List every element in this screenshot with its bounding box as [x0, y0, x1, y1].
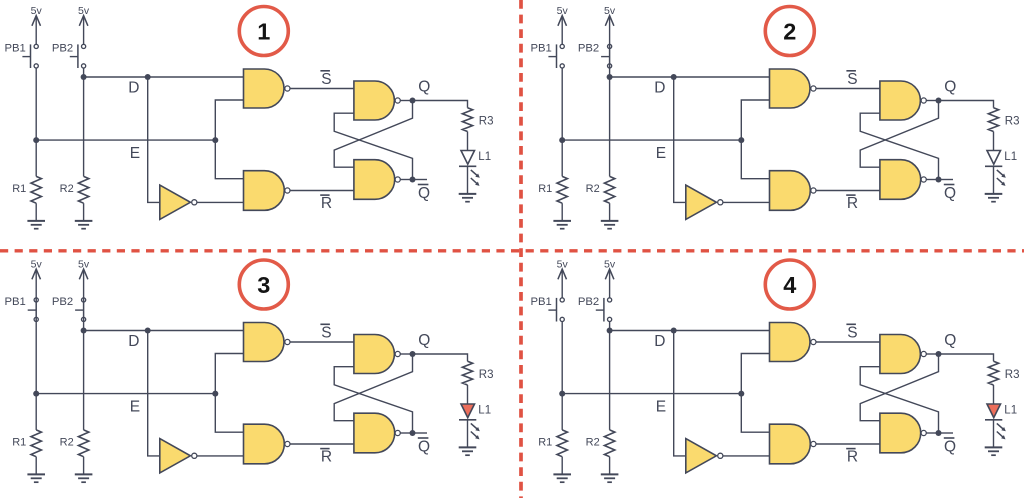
svg-text:R2: R2: [586, 183, 600, 195]
junction node E at PB1: [559, 137, 565, 143]
label L1: [478, 404, 491, 416]
resistor R3: [462, 108, 472, 132]
vertical divider (dashed): [519, 0, 523, 498]
svg-text:D: D: [128, 79, 139, 96]
wire R1 to ground: [35, 457, 37, 475]
svg-text:R: R: [321, 449, 332, 466]
label Q̅: [944, 438, 956, 455]
quadrant 1: D latch demo, PB1 open, PB2 open, LED off: [4, 5, 493, 229]
label D: [654, 79, 665, 96]
label PB2: [578, 43, 599, 55]
inverter U3: [160, 439, 197, 473]
wire R2 to ground: [609, 457, 611, 475]
step 4 badge: [765, 260, 814, 309]
pushbutton PB2: [70, 44, 86, 68]
pushbutton PB2: [601, 44, 612, 68]
svg-text:Q: Q: [944, 332, 956, 349]
resistor R3: [462, 361, 472, 385]
junction node E at PB1: [559, 391, 565, 397]
ground (R1): [553, 474, 571, 482]
ground (L1): [985, 447, 1003, 455]
wire node Q̅ to U4 input (cross-couple): [334, 367, 412, 433]
nand gate U2: [244, 171, 291, 211]
label R̅: [320, 195, 332, 212]
wire node D to U1 input: [610, 330, 770, 332]
wire node Q̅ stub: [413, 432, 428, 434]
label PB2: [578, 296, 599, 308]
led L1: [985, 404, 1006, 439]
svg-text:R1: R1: [12, 183, 26, 195]
power 5v (PB2): [604, 5, 616, 44]
wire PB2 to node D: [609, 68, 611, 77]
wire node D to R2: [609, 331, 611, 430]
wire node E to U1 input: [215, 100, 243, 140]
wire node Q to R3: [939, 354, 994, 361]
svg-text:S: S: [321, 71, 331, 88]
label S̅: [846, 71, 857, 88]
wire node Q to U5 input (cross-couple): [334, 101, 412, 168]
svg-text:R2: R2: [586, 437, 600, 449]
wire PB1 to R1 (node E): [561, 68, 563, 176]
nand gate U5: [880, 160, 926, 200]
wire node Q to R3: [413, 354, 468, 361]
label R3: [1005, 115, 1020, 127]
wire node Q to U5 input (cross-couple): [860, 354, 938, 421]
junction node D at PB2: [81, 74, 87, 80]
wire node E to U1 input: [215, 354, 243, 394]
wire R1 to ground: [561, 203, 563, 221]
nand gate U4: [354, 335, 400, 374]
wire node Q to R3: [413, 101, 468, 108]
svg-text:R3: R3: [1005, 115, 1020, 127]
label S̅: [320, 324, 331, 341]
svg-text:PB2: PB2: [52, 296, 73, 308]
label Q̅: [418, 185, 430, 202]
label R2: [586, 437, 600, 449]
wire net R̅ (U2 out to U5 in): [816, 190, 880, 192]
quadrant 2: D latch demo, PB1 open, PB2 closed, LED off: [530, 5, 1019, 229]
wire L1 to ground: [993, 420, 995, 448]
svg-text:2: 2: [783, 18, 796, 44]
label R1: [538, 183, 552, 195]
label L1: [1004, 404, 1017, 416]
resistor R1: [31, 176, 41, 203]
nand gate U1: [244, 69, 291, 108]
wire PB2 to node D: [609, 322, 611, 331]
wire U4 output to node Q: [400, 100, 412, 102]
nand gate U5: [354, 413, 400, 453]
svg-text:L1: L1: [478, 404, 491, 416]
svg-text:PB2: PB2: [52, 43, 73, 55]
nand gate U4: [880, 81, 926, 120]
label PB1: [4, 43, 25, 55]
ground (R1): [27, 221, 45, 229]
led L1: [459, 404, 480, 439]
wire R2 to ground: [609, 203, 611, 221]
svg-text:3: 3: [257, 272, 270, 298]
svg-text:PB1: PB1: [4, 43, 25, 55]
label L1: [1004, 151, 1017, 163]
svg-text:R1: R1: [538, 437, 552, 449]
wire U5 output to node Q̅: [400, 432, 412, 434]
wire net S̅ (U1 out to U4 in): [290, 341, 354, 343]
svg-text:R1: R1: [12, 437, 26, 449]
svg-text:Q: Q: [944, 185, 956, 202]
junction node D at PB2: [81, 328, 87, 334]
wire PB1 to R1 (node E): [35, 68, 37, 176]
junction node Q: [936, 351, 942, 357]
step 2 badge: [765, 7, 814, 56]
wire node D to inverter U3 input: [674, 77, 685, 202]
svg-text:D: D: [654, 333, 665, 350]
nand gate U2: [770, 424, 817, 464]
svg-text:E: E: [656, 145, 666, 162]
resistor R2: [604, 176, 614, 203]
label Q: [418, 332, 430, 349]
wire L1 to ground: [467, 166, 469, 194]
svg-text:D: D: [654, 79, 665, 96]
junction node D branch: [671, 328, 677, 334]
wire net S̅ (U1 out to U4 in): [816, 341, 880, 343]
nand gate U2: [244, 424, 291, 464]
svg-text:R3: R3: [479, 115, 494, 127]
resistor R3: [988, 361, 998, 385]
wire node D to U1 input: [84, 330, 244, 332]
label R3: [1005, 369, 1020, 381]
wire U3 output to U2 input: [197, 201, 244, 203]
label E: [656, 145, 666, 162]
ground (R2): [601, 221, 619, 229]
svg-text:Q: Q: [944, 438, 956, 455]
wire node E to U1 input: [741, 354, 769, 394]
label PB1: [4, 296, 25, 308]
label Q: [944, 332, 956, 349]
ground (R2): [601, 474, 619, 482]
svg-text:R: R: [847, 195, 858, 212]
wire node E: [36, 139, 215, 141]
label R̅: [320, 449, 332, 466]
wire node E: [562, 393, 741, 395]
svg-text:R2: R2: [60, 437, 74, 449]
svg-text:D: D: [128, 333, 139, 350]
quadrant 4: D latch demo, PB1 open, PB2 open, LED on: [530, 259, 1019, 483]
svg-text:L1: L1: [478, 151, 491, 163]
junction node E branch: [738, 137, 744, 143]
ground (R2): [75, 474, 93, 482]
svg-text:E: E: [130, 145, 140, 162]
junction node D branch: [145, 328, 151, 334]
ground (L1): [459, 194, 477, 202]
wire net S̅ (U1 out to U4 in): [816, 88, 880, 90]
label PB1: [530, 296, 551, 308]
wire net R̅ (U2 out to U5 in): [290, 443, 354, 445]
svg-text:S: S: [847, 325, 857, 342]
wire R2 to ground: [83, 457, 85, 475]
power 5v (PB2): [604, 259, 616, 298]
nand gate U1: [770, 69, 817, 108]
junction node D branch: [671, 74, 677, 80]
resistor R2: [78, 176, 88, 203]
wire U5 output to node Q̅: [400, 179, 412, 181]
svg-text:PB1: PB1: [4, 296, 25, 308]
svg-text:R: R: [321, 195, 332, 212]
label S̅: [846, 324, 857, 341]
wire R1 to ground: [35, 203, 37, 221]
svg-text:Q: Q: [418, 185, 430, 202]
resistor R1: [31, 430, 41, 457]
label D: [128, 333, 139, 350]
pushbutton PB1: [28, 298, 39, 322]
svg-text:PB2: PB2: [578, 296, 599, 308]
ground (L1): [459, 447, 477, 455]
wire node D to R2: [609, 77, 611, 176]
label R3: [479, 369, 494, 381]
junction node E branch: [212, 391, 218, 397]
wire net S̅ (U1 out to U4 in): [290, 88, 354, 90]
wire node Q̅ to U4 input (cross-couple): [860, 113, 938, 179]
wire node D to U1 input: [84, 76, 244, 78]
label R1: [12, 183, 26, 195]
label PB2: [52, 296, 73, 308]
label PB2: [52, 43, 73, 55]
wire PB1 to R1 (node E): [35, 322, 37, 430]
wire R3 to LED L1: [467, 385, 469, 404]
inverter U3: [686, 185, 723, 219]
nand gate U1: [244, 323, 291, 362]
junction node D at PB2: [607, 74, 613, 80]
label R̅: [846, 195, 858, 212]
label R1: [538, 437, 552, 449]
junction node Q̅: [410, 430, 416, 436]
wire net R̅ (U2 out to U5 in): [290, 190, 354, 192]
wire R3 to LED L1: [993, 132, 995, 151]
nand gate U1: [770, 323, 817, 362]
resistor R2: [78, 430, 88, 457]
junction node Q: [936, 98, 942, 104]
wire node D to inverter U3 input: [148, 77, 159, 202]
label L1: [478, 151, 491, 163]
wire node D to U1 input: [610, 76, 770, 78]
power 5v (PB2): [78, 5, 90, 44]
wire node Q to U5 input (cross-couple): [334, 354, 412, 421]
label Q: [944, 79, 956, 96]
wire node Q̅ stub: [413, 179, 428, 181]
power 5v (PB1): [557, 259, 569, 298]
wire U3 output to U2 input: [197, 455, 244, 457]
wire node E to U2 input: [741, 140, 769, 179]
pushbutton PB1: [22, 44, 38, 68]
label R3: [479, 115, 494, 127]
junction node D at PB2: [607, 328, 613, 334]
svg-text:Q: Q: [418, 79, 430, 96]
wire R3 to LED L1: [993, 385, 995, 404]
label R2: [60, 437, 74, 449]
wire node E: [562, 139, 741, 141]
wire node Q̅ stub: [939, 432, 954, 434]
quadrant 3: D latch demo, PB1 closed, PB2 closed, LED on: [4, 259, 493, 483]
label D: [128, 79, 139, 96]
nand gate U4: [354, 81, 400, 120]
wire node D to R2: [83, 331, 85, 430]
wire U3 output to U2 input: [723, 201, 770, 203]
ground (R1): [27, 474, 45, 482]
junction node Q̅: [410, 177, 416, 183]
wire R2 to ground: [83, 203, 85, 221]
wire node E to U1 input: [741, 100, 769, 140]
pushbutton PB2: [75, 298, 86, 322]
wire PB2 to node D: [83, 322, 85, 331]
resistor R1: [557, 430, 567, 457]
junction node Q: [410, 98, 416, 104]
svg-text:E: E: [130, 399, 140, 416]
wire node E: [36, 393, 215, 395]
power 5v (PB2): [78, 259, 90, 298]
junction node E branch: [212, 137, 218, 143]
wire R1 to ground: [561, 457, 563, 475]
svg-text:R3: R3: [1005, 369, 1020, 381]
led L1: [985, 151, 1006, 186]
step 3 badge: [239, 260, 288, 309]
svg-text:R3: R3: [479, 369, 494, 381]
label R1: [12, 437, 26, 449]
label R2: [60, 183, 74, 195]
junction node E branch: [738, 391, 744, 397]
wire node E to U2 input: [741, 394, 769, 433]
svg-text:E: E: [656, 399, 666, 416]
svg-text:S: S: [847, 71, 857, 88]
wire node D to inverter U3 input: [674, 331, 685, 456]
label PB1: [530, 43, 551, 55]
label S̅: [320, 71, 331, 88]
junction node D branch: [145, 74, 151, 80]
svg-text:PB1: PB1: [530, 43, 551, 55]
label Q̅: [418, 438, 430, 455]
resistor R3: [988, 108, 998, 132]
nand gate U5: [880, 413, 926, 453]
pushbutton PB2: [596, 298, 612, 322]
wire PB1 to R1 (node E): [561, 322, 563, 430]
nand gate U4: [880, 335, 926, 374]
label Q: [418, 79, 430, 96]
wire node Q̅ stub: [939, 179, 954, 181]
wire node Q to R3: [939, 101, 994, 108]
horizontal divider (dashed): [0, 249, 1024, 252]
svg-text:S: S: [321, 325, 331, 342]
inverter U3: [686, 439, 723, 473]
svg-text:R2: R2: [60, 183, 74, 195]
label E: [656, 399, 666, 416]
svg-text:Q: Q: [944, 79, 956, 96]
wire U4 output to node Q: [400, 353, 412, 355]
wire node E to U2 input: [215, 394, 243, 433]
wire U3 output to U2 input: [723, 455, 770, 457]
wire node Q̅ to U4 input (cross-couple): [334, 113, 412, 179]
svg-text:PB2: PB2: [578, 43, 599, 55]
ground (R1): [553, 221, 571, 229]
wire L1 to ground: [467, 420, 469, 448]
wire R3 to LED L1: [467, 132, 469, 151]
junction node E at PB1: [33, 391, 39, 397]
wire L1 to ground: [993, 166, 995, 194]
label R2: [586, 183, 600, 195]
svg-text:L1: L1: [1004, 404, 1017, 416]
svg-text:L1: L1: [1004, 151, 1017, 163]
junction node Q: [410, 351, 416, 357]
svg-text:Q: Q: [418, 332, 430, 349]
pushbutton PB1: [548, 44, 564, 68]
label D: [654, 333, 665, 350]
label Q̅: [944, 185, 956, 202]
wire U4 output to node Q: [926, 353, 938, 355]
wire node E to U2 input: [215, 140, 243, 179]
step 1 badge: [239, 7, 288, 56]
led L1: [459, 151, 480, 186]
power 5v (PB1): [557, 5, 569, 44]
nand gate U2: [770, 171, 817, 211]
power 5v (PB1): [31, 259, 43, 298]
wire node D to inverter U3 input: [148, 331, 159, 456]
resistor R2: [604, 430, 614, 457]
ground (L1): [985, 194, 1003, 202]
label R̅: [846, 449, 858, 466]
wire node Q to U5 input (cross-couple): [860, 101, 938, 168]
wire U4 output to node Q: [926, 100, 938, 102]
power 5v (PB1): [31, 5, 43, 44]
svg-text:Q: Q: [418, 438, 430, 455]
label E: [130, 145, 140, 162]
junction node Q̅: [936, 177, 942, 183]
wire net R̅ (U2 out to U5 in): [816, 443, 880, 445]
wire node D to R2: [83, 77, 85, 176]
resistor R1: [557, 176, 567, 203]
junction node Q̅: [936, 430, 942, 436]
junction node E at PB1: [33, 137, 39, 143]
nand gate U5: [354, 160, 400, 200]
wire U5 output to node Q̅: [926, 432, 938, 434]
svg-text:R1: R1: [538, 183, 552, 195]
pushbutton PB1: [548, 298, 564, 322]
svg-text:1: 1: [257, 18, 270, 44]
wire U5 output to node Q̅: [926, 179, 938, 181]
ground (R2): [75, 221, 93, 229]
wire node Q̅ to U4 input (cross-couple): [860, 367, 938, 433]
svg-text:R: R: [847, 449, 858, 466]
svg-text:PB1: PB1: [530, 296, 551, 308]
inverter U3: [160, 185, 197, 219]
svg-text:4: 4: [783, 272, 796, 298]
wire PB2 to node D: [83, 68, 85, 77]
label E: [130, 399, 140, 416]
